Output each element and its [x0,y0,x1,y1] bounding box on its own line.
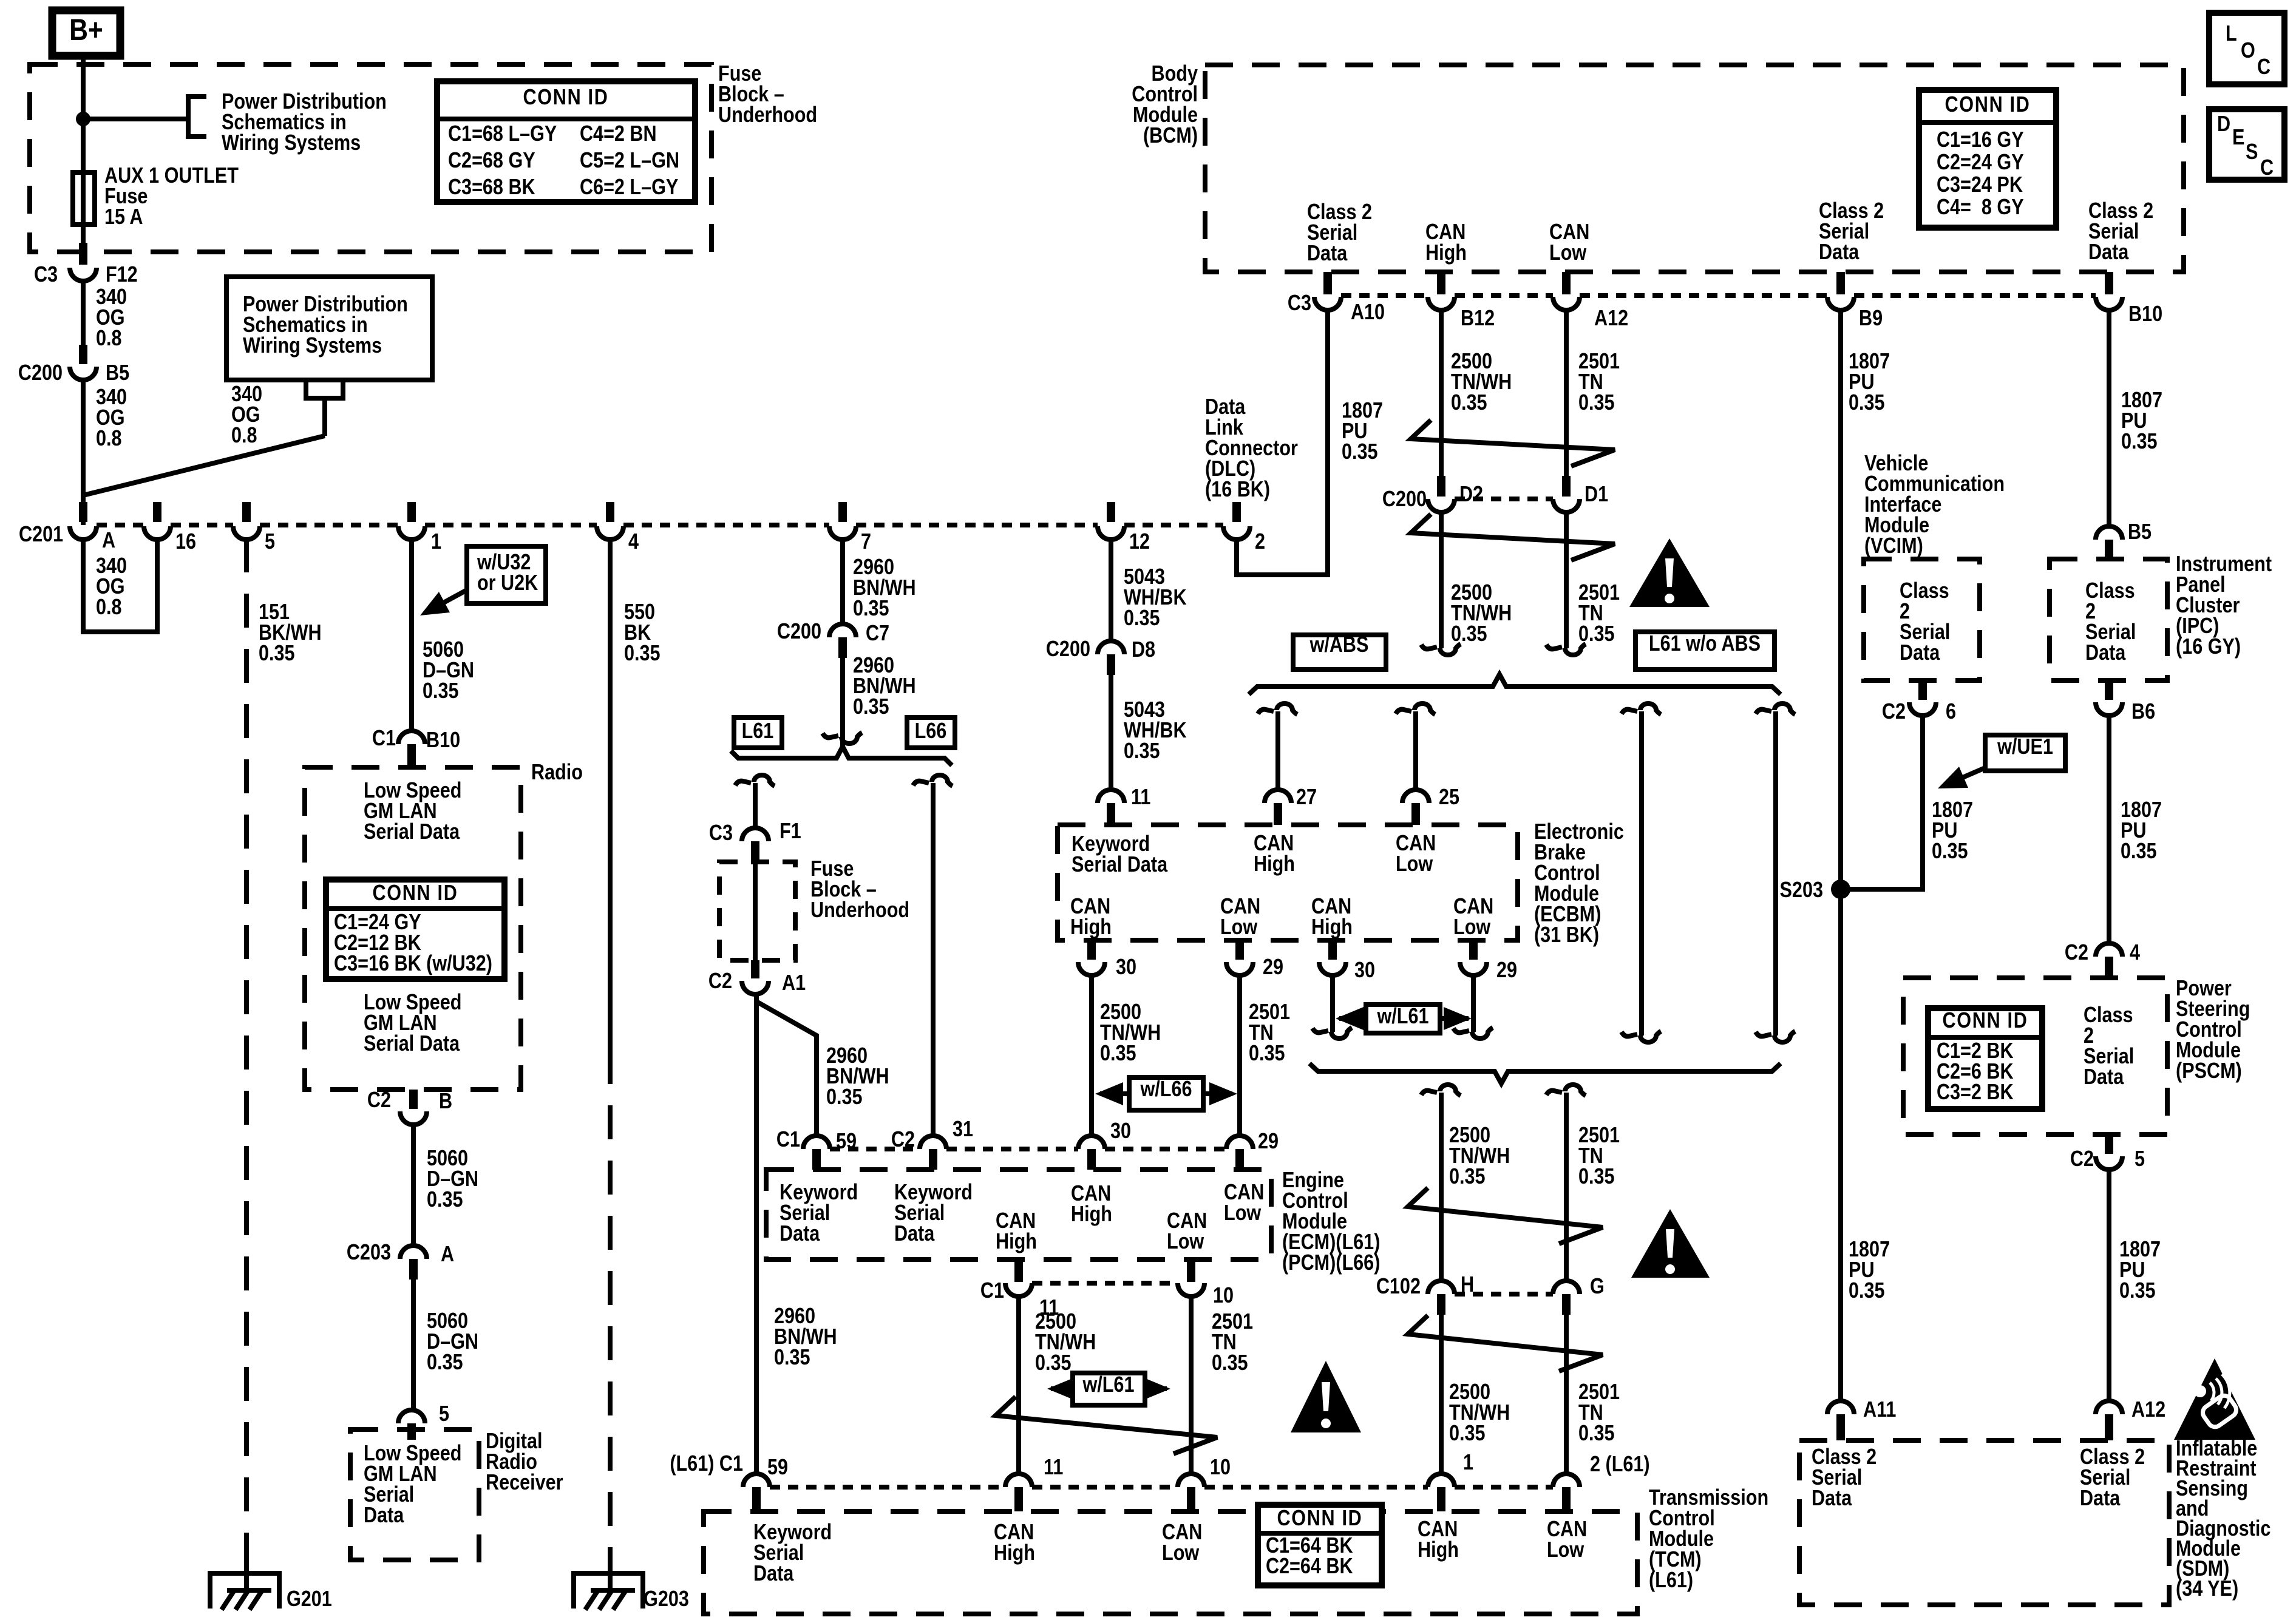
svg-text:C4= 8 GY: C4= 8 GY [1937,195,2024,220]
svg-text:B10: B10 [2128,302,2162,327]
CONN ID table (TCM) [1258,1505,1382,1585]
svg-text:w/L61: w/L61 [1377,1005,1429,1029]
wire B5 to C201 bus [81,380,86,525]
svg-text:0.35: 0.35 [259,642,295,666]
connector C102/G [1553,1281,1580,1294]
svg-text:0.35: 0.35 [1578,1422,1615,1446]
wire w/o ABS right [1773,711,1778,1036]
squiggle L66 branch top [913,781,929,785]
svg-text:High: High [1425,241,1467,265]
svg-text:D2: D2 [1459,483,1483,507]
svg-text:A: A [441,1242,454,1267]
svg-text:C1: C1 [980,1279,1004,1303]
squiggle riser w/o ABS right [1756,710,1771,714]
option label L61 [734,717,782,748]
svg-text:Low: Low [1220,915,1258,940]
svg-text:Data: Data [894,1222,935,1246]
svg-text:6: 6 [1946,700,1956,724]
connector ECM C2/31 [920,1136,946,1149]
svg-text:Data: Data [1819,240,1860,265]
svg-text:CONN ID: CONN ID [1943,1009,2028,1033]
svg-text:C203: C203 [347,1241,391,1265]
svg-text:0.35: 0.35 [1249,1042,1285,1066]
svg-text:Data: Data [2088,240,2129,265]
wire 2960 BN/WH from pin 7 [840,538,845,624]
svg-text:C1: C1 [776,1128,800,1152]
connector ECBM pin 11 [1098,790,1124,803]
connector TCM (L61) C1/59 [743,1474,770,1487]
connector A12 (BCM) [1562,272,1571,294]
svg-text:59: 59 [836,1130,857,1154]
ECM pin row dashed link [830,1147,920,1151]
svg-text:C4=2 BN: C4=2 BN [580,122,657,146]
wire ECBM 30 L61 stub [1330,975,1335,1032]
wire loop A to 16 with 340 OG [83,538,157,632]
svg-text:0.35: 0.35 [1035,1351,1072,1375]
bracket to Power Distribution note [188,97,206,137]
wire CAN Low to stub end [1564,512,1569,648]
connector C2/A1 [751,960,759,978]
svg-text:5: 5 [265,530,275,554]
squiggle riser ECBM 25 [1396,710,1411,714]
ground G203 [574,1573,643,1609]
squiggle riser G [1546,1091,1562,1095]
svg-text:E: E [2232,126,2244,150]
wire A1 down to TCM keyword [754,994,759,1474]
connector ECBM pin 29 [1235,940,1244,960]
svg-text:0.35: 0.35 [1578,1165,1615,1189]
svg-text:0.35: 0.35 [1449,1165,1486,1189]
svg-text:0.8: 0.8 [96,427,122,451]
warning triangle (ECM) [1291,1361,1361,1432]
CONN ID table (radio) [326,880,504,979]
svg-text:Serial Data: Serial Data [364,820,460,844]
svg-text:or U2K: or U2K [477,571,538,595]
C201 harness bus (dashed) [97,523,144,527]
wire IPC B6 to PSCM C2/4 [2107,716,2111,943]
wire CAN High to stub end [1439,512,1444,648]
svg-text:CONN ID: CONN ID [1277,1507,1362,1531]
Digital Radio Receiver dashed box [350,1429,479,1560]
svg-text:0.35: 0.35 [1578,622,1615,646]
CONN ID table (fuse block underhood) [437,81,695,202]
svg-text:C2: C2 [891,1128,915,1152]
svg-text:C200: C200 [18,361,63,385]
wire riser to ECBM 27 [1275,711,1280,790]
svg-text:Data: Data [1812,1486,1852,1511]
connector C3/A10 (BCM) [1323,272,1332,294]
svg-text:CONN ID: CONN ID [523,86,609,110]
svg-text:16: 16 [175,530,196,554]
svg-text:w/ABS: w/ABS [1309,633,1369,657]
twisted pair symbol (ECM CAN) [996,1397,1217,1454]
connector C201 pin 1 [407,502,416,522]
svg-text:C2: C2 [708,969,732,994]
svg-text:0.8: 0.8 [231,424,257,448]
arrow w/U32 to wire [432,590,467,609]
connector TCM 11 [1005,1474,1032,1487]
connector A12 (SDM) [2096,1401,2122,1414]
Radio module dashed box [305,767,521,1090]
svg-text:0.35: 0.35 [1849,391,1885,415]
svg-text:F12: F12 [106,263,138,287]
svg-text:5: 5 [439,1402,449,1426]
BCM pin row dashed link [1341,293,1428,298]
svg-text:Data: Data [2080,1486,2121,1511]
wire B+ down to fuse and F12 [81,56,86,259]
wire power distribution to splice [322,398,327,436]
svg-text:0.35: 0.35 [1342,440,1378,464]
Transmission Control Module dashed box [704,1511,1637,1614]
svg-text:0.35: 0.35 [427,1351,463,1375]
svg-text:Underhood: Underhood [810,898,909,923]
option flag L61 w/o ABS [1635,632,1775,670]
wire 5060 D-GN to radio [409,538,414,731]
svg-text:C3: C3 [709,821,733,846]
connector VCIM C2/6 [1918,680,1927,700]
svg-text:F1: F1 [779,819,801,844]
squiggle L61 branch top [735,781,751,785]
option flag w/L61 (ECBM) [1339,1016,1469,1021]
svg-text:B+: B+ [69,13,103,47]
squiggle riser H [1421,1091,1437,1095]
wire BCM B9 down to A11 [1838,310,1843,1401]
connector C200/D1 [1562,476,1571,497]
svg-text:Data: Data [1900,641,1940,665]
twisted pair symbol (B12/A12 upper) [1411,420,1615,466]
DESC reference box [2209,109,2284,180]
svg-text:0.35: 0.35 [423,679,459,703]
svg-text:G: G [1590,1275,1605,1299]
svg-text:B9: B9 [1859,307,1883,331]
svg-text:C3=16 BK (w/U32): C3=16 BK (w/U32) [334,952,492,976]
option split brace L61/L66 [731,747,952,765]
svg-text:High: High [1254,852,1295,876]
ground G201 [210,1573,279,1609]
svg-text:A12: A12 [2131,1398,2165,1422]
connector C3/F1 [742,828,769,841]
connector C203/A [400,1246,427,1259]
warning triangle (C102 pair) [1631,1209,1710,1278]
svg-text:C200: C200 [777,620,821,644]
connector TCM 2 (L61) [1553,1474,1580,1487]
wire ECBM 29 L61 stub [1471,975,1476,1032]
wire riser to C102 H [1439,1093,1444,1281]
svg-text:30: 30 [1116,955,1136,980]
svg-text:0.35: 0.35 [2121,839,2157,864]
svg-text:Data: Data [753,1562,794,1586]
wire L66 branch to C2/31 [931,783,936,1136]
svg-text:Low: Low [1396,852,1433,876]
LOC reference box [2209,13,2284,84]
wire 550 BK to G203 (dashed) [608,1050,613,1554]
svg-text:L66: L66 [915,719,947,744]
svg-text:0.35: 0.35 [853,695,889,719]
svg-text:(PSCM): (PSCM) [2176,1059,2242,1083]
svg-text:31: 31 [953,1117,973,1142]
svg-text:0.35: 0.35 [2121,430,2158,454]
wire G to TCM 2 [1564,1315,1569,1474]
svg-text:0.35: 0.35 [1451,622,1487,646]
svg-text:0.35: 0.35 [1578,391,1615,415]
connector C201 pin 2 (DLC) [1232,502,1241,522]
svg-text:4: 4 [628,530,639,554]
wire F12 to B5 340 OG [81,281,86,345]
connector C201/A [79,502,87,522]
svg-text:C2: C2 [2065,941,2088,965]
wire C7 to option brace [840,658,845,748]
connector C2/B (radio out) [409,1090,418,1109]
connector C1/B10 (radio) [398,731,425,744]
svg-text:C2: C2 [367,1088,391,1113]
junction node on B+ wire [76,112,90,126]
svg-text:A11: A11 [1863,1398,1896,1422]
VCIM dashed box [1864,559,1980,680]
connector ECM C1/11 [1014,1259,1023,1282]
svg-text:C6=2 L–GY: C6=2 L–GY [580,175,678,200]
svg-text:10: 10 [1213,1284,1234,1308]
connector C201 pin 16 [153,502,161,522]
svg-text:L61 w/o ABS: L61 w/o ABS [1649,632,1761,656]
svg-text:0.35: 0.35 [1124,739,1160,764]
svg-text:S: S [2246,140,2258,164]
wire ECBM 29 to ECM 29 [1237,975,1242,1136]
svg-text:High: High [994,1541,1035,1565]
svg-text:B6: B6 [2131,700,2155,724]
svg-text:11: 11 [1044,1456,1063,1480]
option flag w/L66 [1100,1091,1232,1096]
squiggle riser w/o ABS left [1622,710,1637,714]
svg-text:Data: Data [2085,641,2126,665]
svg-text:High: High [1311,915,1353,940]
connector ECBM pin 27 [1265,790,1291,803]
svg-text:29: 29 [1263,955,1283,980]
svg-text:C2: C2 [1882,700,1906,724]
wire radio to C203 [411,1125,416,1246]
wire riser to C102 G [1564,1093,1569,1281]
svg-text:C1: C1 [372,727,396,751]
svg-text:Underhood: Underhood [718,103,817,127]
wire BCM B10 down to IPC B5 [2107,310,2111,526]
svg-text:C: C [2257,55,2271,80]
Body Control Module dashed box [1205,65,2184,272]
svg-text:2 (L61): 2 (L61) [1590,1453,1650,1477]
svg-text:1: 1 [1463,1451,1473,1475]
wire C203 to digital radio receiver [411,1280,416,1410]
svg-text:C102: C102 [1376,1275,1421,1299]
connector A11 (SDM) [1827,1401,1854,1414]
connector ECM 30 [1078,1136,1105,1149]
twisted pair symbol (D2/D1 lower) [1411,514,1615,560]
svg-text:15 A: 15 A [104,205,143,229]
connector C201 pin 12 [1107,502,1115,522]
wire 5043 WH/BK from pin 12 [1109,538,1113,641]
ECM bottom dashed link [1032,1281,1178,1286]
fuse block underhood small dashed box [719,862,795,960]
Engine Control Module dashed box [766,1170,1271,1259]
splice S203 [1831,880,1850,899]
svg-text:C3=2 BK: C3=2 BK [1937,1080,2014,1105]
svg-text:(L61) C1: (L61) C1 [670,1452,743,1476]
wire w/o ABS left [1639,711,1644,1036]
wire D8 to ECBM pin 11 [1109,675,1113,790]
CONN ID table (PSCM) [1928,1008,2042,1109]
svg-text:B10: B10 [426,728,460,753]
connector pin 5 (digital radio receiver) [398,1410,425,1423]
option flag w/UE1 [1985,735,2065,771]
svg-text:Serial Data: Serial Data [1072,853,1167,877]
svg-text:5: 5 [2135,1147,2145,1171]
connector ECBM pin 29 (L61) [1469,940,1478,960]
svg-text:C3: C3 [1288,291,1311,316]
svg-text:C200: C200 [1046,637,1090,662]
svg-text:(16 GY): (16 GY) [2176,635,2241,659]
svg-text:Serial Data: Serial Data [364,1032,460,1056]
svg-text:B: B [439,1090,452,1114]
svg-text:Data: Data [1307,242,1348,266]
wire DLC pin 2 to BCM A10 [1237,310,1328,575]
svg-text:L61: L61 [742,719,774,744]
svg-text:30: 30 [1354,958,1375,983]
warning triangle (CAN pair) [1629,538,1710,607]
svg-text:B12: B12 [1461,307,1495,331]
svg-text:C5=2 L–GN: C5=2 L–GN [580,149,679,173]
svg-text:C2: C2 [2070,1147,2094,1171]
Power Distribution Schematics box [226,277,432,380]
Instrument Panel Cluster dashed box [2050,559,2167,680]
svg-text:Low: Low [1547,1538,1584,1562]
fuse AUX 1 OUTLET 15 A [73,172,95,225]
svg-text:A1: A1 [782,971,806,995]
wire riser to ECBM 25 [1413,711,1418,790]
svg-text:B5: B5 [2128,520,2152,544]
connector PSCM C2/4 [2096,943,2122,957]
battery feed terminal B+ [52,10,120,56]
svg-text:High: High [1071,1202,1112,1227]
svg-text:C2=68 GY: C2=68 GY [448,149,535,173]
wire 151 BK/WH to G201 (dashed) [244,538,249,1554]
svg-text:B5: B5 [106,361,129,385]
squiggle on wire 7 [823,733,838,737]
connector TCM 10 [1178,1474,1204,1487]
wire ECM 10 to TCM 10 [1189,1297,1194,1474]
svg-text:1: 1 [431,530,441,554]
svg-text:(31 BK): (31 BK) [1534,923,1599,947]
svg-text:C201: C201 [19,523,63,547]
bracket below power distribution box [306,380,343,398]
connector C201 pin 4 [606,502,614,522]
svg-text:29: 29 [1258,1130,1279,1154]
svg-text:D: D [2217,112,2230,137]
svg-text:(16 BK): (16 BK) [1205,478,1270,502]
svg-text:D1: D1 [1584,483,1608,507]
connector IPC B6 [2105,680,2113,700]
option flag w/ABS [1293,635,1386,670]
option flag w/U32 or U2K [467,546,546,603]
svg-text:0.35: 0.35 [1849,1279,1885,1303]
connector C200/D8 [1098,641,1124,654]
svg-text:A10: A10 [1351,300,1385,325]
wire H to TCM 1 [1439,1315,1444,1474]
svg-text:C3=24 PK: C3=24 PK [1937,173,2023,197]
svg-text:0.35: 0.35 [826,1085,863,1110]
connector B12 (BCM) [1437,272,1445,294]
connector ECBM pin 30 [1087,940,1096,960]
svg-text:0.35: 0.35 [1212,1351,1248,1375]
svg-text:(L61): (L61) [1649,1568,1693,1593]
connector C102/H [1428,1281,1455,1294]
svg-text:CONN ID: CONN ID [372,881,458,906]
connector ECM 29 [1226,1136,1253,1149]
svg-text:Low: Low [1167,1230,1204,1254]
svg-text:C2=64 BK: C2=64 BK [1266,1554,1353,1579]
svg-text:0.8: 0.8 [96,595,122,620]
svg-text:C2=24 GY: C2=24 GY [1937,151,2024,175]
connector C200/B5 [79,345,87,364]
svg-text:Data: Data [364,1503,404,1528]
wire A1 diagonal to ECM keyword [756,1002,817,1136]
svg-text:0.35: 0.35 [427,1188,463,1212]
svg-text:12: 12 [1129,530,1150,554]
wire CAN High B12 upper [1439,310,1444,480]
svg-text:w/L61: w/L61 [1082,1373,1135,1397]
svg-text:Low: Low [1549,241,1587,265]
dashed link D2-D1 [1455,497,1553,501]
option brace w/ABS [1249,674,1781,694]
svg-text:0.35: 0.35 [624,642,661,666]
connector C200/D2 [1437,476,1445,497]
connector PSCM C2/5 [2105,1134,2113,1154]
svg-text:0.35: 0.35 [1124,606,1160,631]
svg-text:Low: Low [1453,915,1491,940]
wire 550 BK from pin 4 [608,538,613,1050]
connector B10 (BCM) [2105,272,2113,294]
wire L61 branch to C3/F1 [753,783,758,829]
Power Steering Control Module dashed box [1903,978,2167,1134]
svg-text:2: 2 [1255,530,1265,554]
fuse block underhood dashed box (top) [30,64,712,252]
svg-text:A: A [102,529,115,553]
svg-text:Receiver: Receiver [486,1471,563,1495]
svg-text:7: 7 [861,530,871,554]
svg-text:D8: D8 [1132,638,1155,662]
svg-text:0.35: 0.35 [774,1346,810,1370]
svg-text:C7: C7 [866,622,889,646]
wire ECBM 30 to ECM 30 [1089,975,1094,1136]
connector C201 pin 5 [242,502,251,522]
wire ECM 11 to TCM 11 [1016,1297,1021,1474]
option brace L61 w/o ABS [1309,1063,1781,1083]
connector IPC B5 [2096,526,2122,540]
svg-text:(VCIM): (VCIM) [1864,534,1923,558]
Electronic Brake Control Module dashed box [1058,825,1518,940]
svg-text:Data: Data [779,1222,820,1246]
svg-text:High: High [1070,915,1112,940]
svg-text:Low: Low [1224,1201,1262,1225]
connector B9 (BCM) [1836,272,1845,294]
connector ECBM pin 30 (L61) [1328,940,1337,960]
svg-text:Low: Low [1162,1541,1200,1565]
wire VCIM C2/6 to splice S203 [1841,716,1923,889]
svg-text:0.35: 0.35 [1932,839,1968,864]
svg-text:0.35: 0.35 [1451,391,1487,415]
svg-text:G201: G201 [287,1587,332,1612]
svg-text:0.35: 0.35 [1100,1042,1136,1066]
svg-text:Data: Data [2084,1065,2124,1090]
svg-text:0.35: 0.35 [1449,1422,1486,1446]
svg-text:C1=16 GY: C1=16 GY [1937,128,2024,152]
squiggle riser ECBM 27 [1258,710,1274,714]
